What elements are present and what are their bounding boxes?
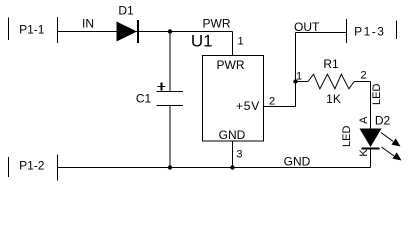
resistor R1 label: [323, 57, 339, 71]
svg-text:GND: GND: [284, 155, 311, 169]
wire OUT net: [296, 33, 347, 82]
capacitor C1: [157, 32, 184, 168]
svg-text:D2: D2: [375, 114, 391, 128]
svg-text:3: 3: [236, 149, 242, 161]
svg-text:1: 1: [237, 36, 243, 48]
svg-text:PWR: PWR: [217, 58, 245, 72]
junction dot at +5V node: [293, 79, 297, 83]
connector P1-3 label: [354, 25, 385, 39]
svg-text:P1-3: P1-3: [354, 25, 385, 39]
net label PWR: [203, 17, 231, 31]
wire pin3 stub of U1: [232, 141, 234, 168]
wire pin2 stub of U1: [264, 82, 296, 107]
diode D1 label: [118, 4, 134, 18]
net label GND: [284, 155, 311, 169]
svg-text:PWR: PWR: [203, 17, 231, 31]
U1 reference label: [191, 32, 213, 51]
pin name GND inside U1: [219, 128, 246, 142]
svg-text:2: 2: [360, 70, 366, 82]
svg-text:R1: R1: [323, 57, 339, 71]
svg-text:IN: IN: [82, 17, 94, 31]
pin number 1 of R1: [296, 71, 302, 83]
svg-text:GND: GND: [219, 128, 246, 142]
diode D1: [117, 20, 139, 43]
connector P1-2 pin tick: [57, 155, 59, 181]
svg-text:K: K: [358, 149, 370, 157]
LED D2: [360, 129, 382, 149]
connector P1-1 label: [19, 23, 45, 37]
capacitor C1 polarity plus: [158, 83, 166, 91]
resistor R1: [296, 74, 371, 89]
svg-text:1: 1: [296, 71, 302, 83]
pin number 1 of U1: [237, 36, 243, 48]
pin name LED (cathode side, rotated): [341, 126, 353, 147]
pin number 3 of U1: [236, 149, 242, 161]
wire pin1 stub into U1: [232, 32, 234, 56]
junction dot pin3 on GND rail: [230, 165, 234, 169]
svg-text:1K: 1K: [326, 92, 341, 106]
wire LED cathode to GND rail: [370, 149, 372, 168]
border tick bottom-left: [8, 157, 10, 177]
svg-text:LED: LED: [341, 126, 353, 147]
pin number 2 of U1: [269, 96, 275, 108]
pin marker K (rotated): [358, 149, 370, 157]
svg-text:P1-1: P1-1: [19, 23, 45, 37]
border tick top-left: [8, 18, 10, 41]
svg-text:+5V: +5V: [236, 99, 260, 113]
wire IN net (P1-1 to diode to pin1 corner): [58, 31, 233, 33]
pin name PWR inside U1: [217, 58, 245, 72]
svg-text:2: 2: [269, 96, 275, 108]
svg-text:OUT: OUT: [294, 20, 320, 34]
pin name +5V inside U1: [236, 99, 260, 113]
LED D2 label: [375, 114, 391, 128]
svg-text:LED: LED: [371, 84, 383, 105]
net label OUT: [294, 20, 320, 34]
wire GND rail: [57, 167, 371, 169]
LED emission arrow 2: [382, 147, 402, 161]
wire R1 to LED anode: [370, 82, 372, 130]
capacitor C1 label: [136, 92, 152, 106]
net label IN: [82, 17, 94, 31]
pin marker A (rotated): [358, 116, 370, 124]
value label 1K: [326, 92, 341, 106]
op-amp / regulator U1 box: [203, 56, 264, 142]
border tick top-right: [396, 21, 398, 40]
connector P1-2 label: [19, 159, 45, 173]
svg-text:C1: C1: [136, 92, 152, 106]
pin number 2 of R1: [360, 70, 366, 82]
junction dot C1 on GND rail: [168, 165, 172, 169]
connector P1-3 pin tick: [346, 19, 348, 43]
svg-text:D1: D1: [118, 4, 134, 18]
pin name LED (anode side, rotated): [371, 84, 383, 105]
connector P1-1 pin tick: [57, 17, 59, 43]
svg-text:U1: U1: [191, 32, 213, 51]
svg-text:A: A: [358, 116, 370, 124]
junction dot at diode output node: [168, 29, 172, 33]
LED emission arrow 1: [381, 133, 401, 147]
svg-text:P1-2: P1-2: [19, 159, 45, 173]
